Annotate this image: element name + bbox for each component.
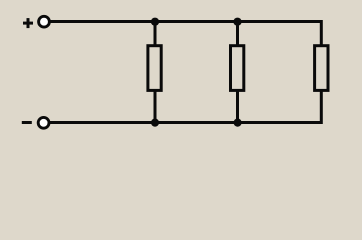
resistor R1	[148, 46, 161, 91]
resistor R3	[315, 46, 328, 91]
wire: R1 bottom lead	[154, 91, 157, 123]
minus terminal label	[22, 121, 32, 124]
wire: R2 top lead	[236, 22, 239, 46]
junction node: bottom rail / R2	[234, 119, 242, 127]
resistor R2	[231, 46, 244, 91]
junction node: bottom rail / R1	[151, 119, 159, 127]
junction node: top rail / R1	[151, 18, 159, 26]
wire: top rail from + terminal to top-right corner, down to R3	[50, 22, 321, 46]
wire: bottom rail from - terminal to bottom-right corner, up to R3	[50, 91, 322, 123]
wire: R2 bottom lead	[236, 91, 239, 123]
wire: R1 top lead	[154, 22, 157, 46]
terminal node - (open circle)	[38, 117, 49, 128]
terminal node + (open circle)	[39, 16, 50, 27]
plus terminal label	[23, 18, 33, 28]
junction node: top rail / R2	[233, 18, 241, 26]
